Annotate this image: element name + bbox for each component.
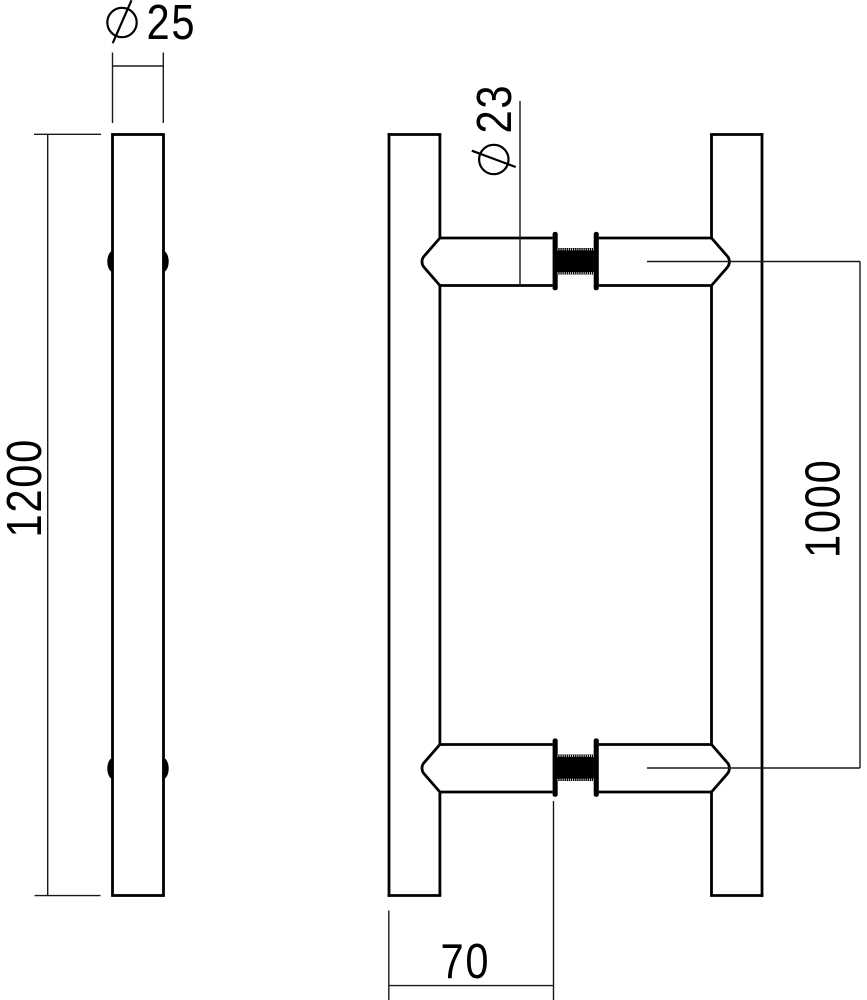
svg-text:1200: 1200 — [0, 438, 52, 537]
svg-text:23: 23 — [467, 84, 522, 134]
svg-text:1000: 1000 — [795, 459, 850, 558]
svg-text:70: 70 — [441, 934, 491, 989]
svg-text:25: 25 — [147, 0, 197, 50]
